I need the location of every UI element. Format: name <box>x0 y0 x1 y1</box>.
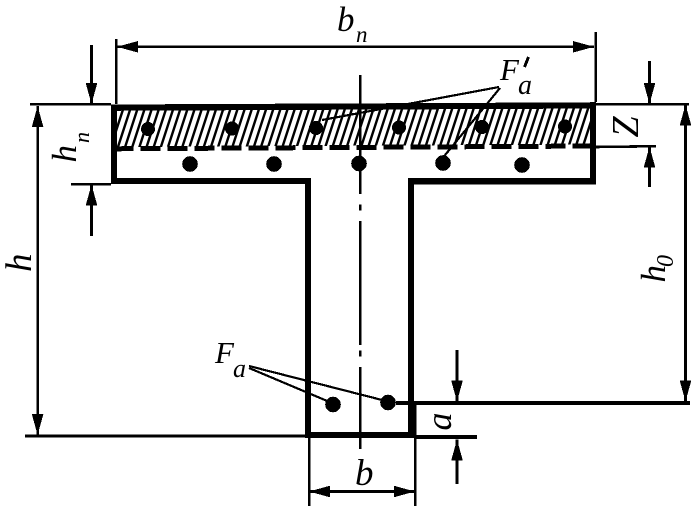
b_n arrow left <box>117 41 138 53</box>
b_n extension left <box>115 39 118 104</box>
extension line Z bottom <box>596 145 656 148</box>
rebar dots bottom <box>325 395 396 413</box>
a arrow down <box>451 381 463 402</box>
dimension Z upper segment <box>648 61 651 104</box>
h_0 arrow bottom <box>680 381 692 402</box>
rebar level line right <box>396 401 690 405</box>
svg-text:n: n <box>356 22 368 47</box>
svg-text:F: F <box>499 52 520 87</box>
h arrow bottom <box>32 414 44 435</box>
svg-text:h: h <box>45 145 84 163</box>
leader Fa to left dot <box>249 368 332 403</box>
flange top edge <box>111 102 596 111</box>
flange right edge <box>590 102 596 185</box>
dimension h line <box>36 106 39 435</box>
flange bottom edge right <box>408 178 596 185</box>
label h_0 <box>634 255 679 283</box>
b extension right <box>414 402 417 506</box>
extension line top right <box>596 103 689 106</box>
hatched compression zone <box>117 108 590 147</box>
svg-text:b: b <box>337 0 355 39</box>
svg-text:n: n <box>69 132 94 143</box>
svg-text:a: a <box>419 413 459 431</box>
dimension b_n line <box>117 45 594 48</box>
h arrow top <box>32 106 44 127</box>
svg-text:a: a <box>233 354 246 383</box>
label h_n <box>45 132 94 163</box>
web bottom level line right <box>414 435 477 439</box>
Z arrow up <box>644 147 656 168</box>
leader Fa to right dot <box>249 366 386 401</box>
extension line flange bottom left <box>71 183 111 186</box>
b extension left <box>308 438 311 506</box>
a arrow up <box>451 440 463 461</box>
svg-text:0: 0 <box>653 255 679 267</box>
svg-text:F: F <box>214 335 235 370</box>
dimension h_0 line <box>684 105 687 402</box>
svg-text:Z: Z <box>605 116 647 138</box>
dimension Z lower segment <box>648 147 651 188</box>
extension line top left <box>30 103 111 106</box>
web bottom level line left <box>25 435 305 438</box>
dimension h_n upper segment <box>90 45 93 104</box>
h_n arrow down <box>86 83 98 104</box>
flange bottom edge left <box>111 178 311 184</box>
svg-text:h: h <box>0 254 40 273</box>
svg-text:b: b <box>355 453 374 494</box>
dimension b line <box>309 490 415 493</box>
dimension a upper segment <box>456 350 459 402</box>
flange left edge <box>111 105 117 185</box>
leader F'a to hatch <box>322 87 499 120</box>
b arrow left <box>309 486 330 498</box>
b_n extension right <box>594 32 597 102</box>
h_0 arrow top <box>680 105 692 126</box>
web left edge <box>305 178 311 438</box>
b arrow right <box>394 486 415 498</box>
web right edge <box>408 178 414 438</box>
dimension a lower segment <box>456 440 459 485</box>
Z arrow down <box>644 83 656 104</box>
svg-text:a: a <box>518 70 532 101</box>
centerline <box>359 75 362 449</box>
rebar dots second row <box>182 155 530 173</box>
b_n arrow right <box>573 41 594 53</box>
dashed hatch boundary <box>114 146 596 149</box>
h_n arrow up <box>86 185 98 206</box>
web bottom edge <box>305 432 414 438</box>
dimension h_n lower segment <box>90 185 93 237</box>
leader F'a to rebar row2 <box>441 88 500 160</box>
rebar dots top row <box>141 120 572 137</box>
